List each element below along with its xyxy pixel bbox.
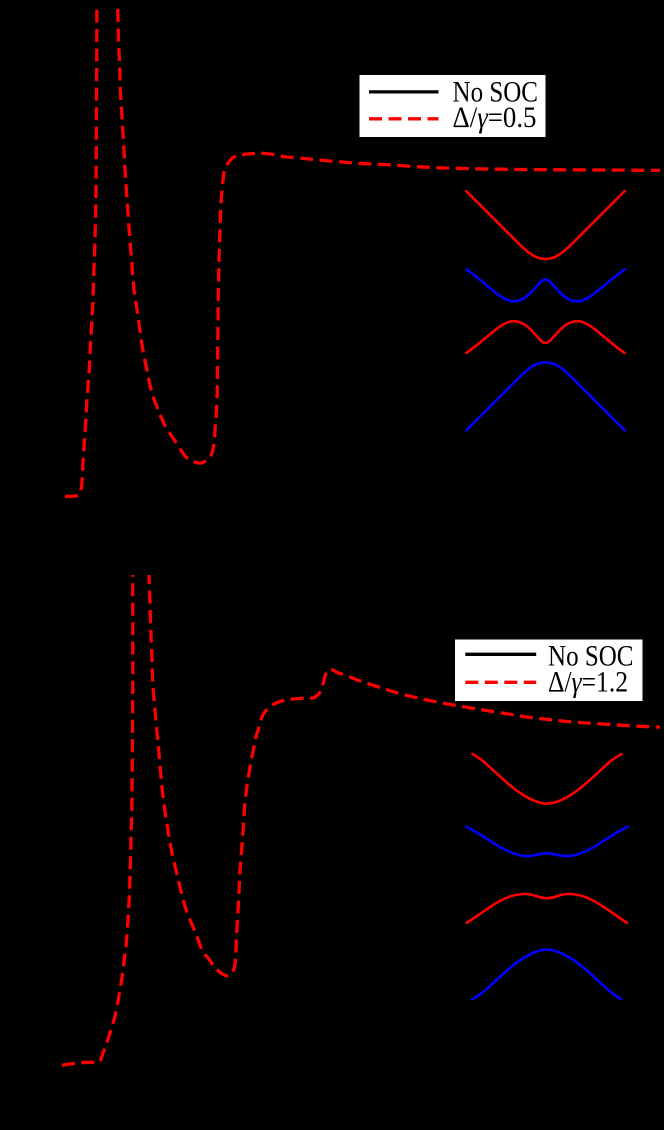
top legend: red dashed sample bbox=[369, 117, 439, 120]
bottom inset band 4 (blue lower) bbox=[472, 950, 623, 1000]
top inset band 1 (red upper) bbox=[466, 190, 626, 259]
bottom inset band 1 (red upper) bbox=[472, 753, 623, 803]
svg-text:Δ/γ=0.5: Δ/γ=0.5 bbox=[453, 102, 537, 134]
top inset band 3 (red) bbox=[466, 321, 626, 353]
top inset band 2 (blue) bbox=[466, 269, 626, 302]
top inset band 4 (blue lower) bbox=[466, 363, 626, 432]
bottom legend box bbox=[455, 640, 643, 702]
svg-text:Δ/γ=1.2: Δ/γ=1.2 bbox=[548, 667, 628, 699]
bottom panel: red dashed curve Delta/gamma=1.2 bbox=[62, 478, 662, 1066]
bottom inset band 2 (blue) bbox=[465, 826, 628, 856]
bottom inset band 3 (red) bbox=[466, 894, 628, 923]
bottom legend: red dashed sample bbox=[465, 681, 536, 684]
top legend box bbox=[360, 75, 546, 137]
top legend: black solid sample bbox=[369, 90, 439, 93]
top panel: red dashed curve Delta/gamma=0.5 bbox=[65, 0, 662, 497]
bottom legend: black solid sample bbox=[465, 653, 536, 656]
